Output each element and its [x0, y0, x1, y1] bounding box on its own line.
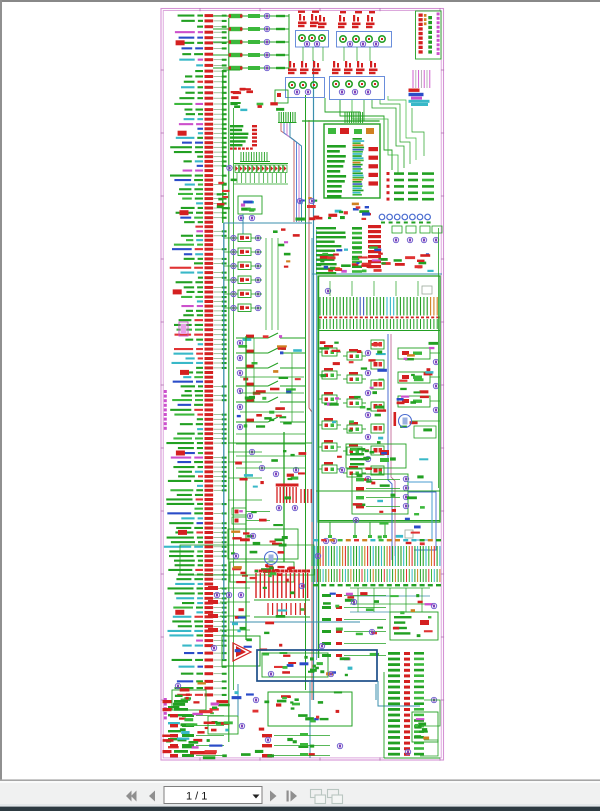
band F scatter mid — [279, 644, 282, 647]
comb base wires F — [254, 599, 310, 601]
red dash row B — [230, 148, 233, 150]
ECU box B feed wire — [302, 120, 379, 122]
bottom-left rows — [170, 714, 178, 717]
ECU main box teal top — [312, 273, 442, 275]
bottom-right wire loops — [424, 700, 440, 726]
left mid green box — [275, 90, 288, 103]
band D mid connect wires — [236, 433, 306, 435]
band G bottom-left dense rows — [166, 740, 171, 743]
ECU box B ladder column — [353, 138, 362, 140]
red comb cluster E — [276, 487, 278, 503]
connector CN4 box — [330, 77, 385, 100]
toolbar separator — [0, 779, 600, 781]
component grid mid — [322, 348, 337, 356]
comb rows B1 — [240, 152, 242, 161]
bus wire teal vertical — [223, 223, 225, 660]
connector stack CN4 glyphs — [333, 61, 335, 68]
left box top teal edge — [224, 222, 312, 224]
button first page — [131, 791, 137, 802]
switch zone drops — [253, 338, 255, 402]
switch rows extra wires — [240, 376, 304, 378]
ECU box B border — [324, 124, 380, 198]
icon next view — [328, 790, 339, 798]
main bus elbow — [222, 70, 224, 223]
button next page — [270, 791, 277, 802]
long green vertical x246 — [245, 336, 247, 640]
frame zone ticks left right — [161, 69, 164, 71]
bottom-left cluster G2 — [208, 716, 238, 734]
risers to navy box — [237, 684, 239, 716]
frame zone ticks top bottom — [199, 8, 201, 11]
cluster B left margin bits — [218, 198, 222, 201]
center bundle rose wire — [309, 120, 312, 700]
harness name vertical magenta — [164, 390, 167, 393]
band E mid scatter — [271, 459, 278, 462]
relay zone side labels — [284, 253, 291, 256]
mid grid scatter — [370, 451, 375, 454]
component column tall — [371, 340, 384, 349]
controller navy box — [257, 650, 377, 681]
legend label red — [409, 89, 420, 92]
title text orange vertical — [424, 14, 427, 17]
legend label cyan row2 — [411, 103, 428, 106]
pin table labels F bottom — [313, 584, 318, 586]
long bus green vertical E — [283, 432, 285, 562]
funnel wire bundle — [281, 123, 294, 165]
center bundle blue wire — [316, 230, 318, 660]
red comb cluster E2 — [300, 489, 302, 503]
wire box F — [180, 545, 314, 575]
warning bar red M1 — [394, 412, 397, 426]
button previous page — [149, 791, 155, 802]
band F right rows — [322, 594, 331, 597]
component cluster E1 — [346, 444, 406, 468]
title text green vertical — [428, 16, 432, 19]
bottom-right base wires — [384, 757, 440, 759]
E right scatter — [380, 484, 390, 487]
band F right box — [390, 612, 438, 640]
legend label blue — [409, 93, 424, 96]
window left border — [0, 0, 2, 780]
ECU box B comb top — [344, 112, 346, 123]
comb circles triple F — [214, 592, 219, 597]
bus connect horizontal E — [228, 442, 312, 444]
box bottom rail — [318, 520, 440, 522]
band G scatter — [316, 716, 319, 719]
red comb header text F — [278, 566, 285, 568]
ECU main box border — [318, 276, 440, 522]
circles E — [249, 449, 254, 454]
page number combo box — [164, 787, 262, 804]
relay ladder drops — [265, 238, 267, 330]
pin table strokes upper — [319, 297, 321, 316]
right component group rows — [398, 348, 430, 359]
center bundle teal wire — [313, 60, 315, 700]
relay ladder column — [238, 234, 251, 242]
ECU green marks col2 — [352, 227, 362, 230]
teal drops below navy box — [309, 681, 311, 758]
red comb cluster F2 — [267, 603, 269, 615]
mesh wires F right — [350, 587, 430, 589]
left mid marks — [240, 109, 247, 111]
bottom-right box — [412, 712, 438, 742]
band F scatter right — [391, 595, 399, 597]
bottom-center box G3 — [268, 692, 352, 726]
ECU mid scatter — [328, 269, 333, 272]
terminal zipper strip — [234, 163, 288, 165]
cluster B lower-mid — [316, 217, 323, 220]
long wire row 491 — [316, 490, 440, 492]
band E link wires — [228, 451, 262, 453]
component cluster E4 box — [230, 562, 294, 582]
blue donut row B — [379, 214, 385, 220]
connector comb B0 — [278, 112, 280, 122]
pin table drop wires — [329, 281, 331, 296]
navy box inner box — [262, 653, 328, 677]
connector stack CN1 labels — [298, 11, 305, 13]
fuse row wires top — [213, 15, 289, 17]
connector stack CN3 glyphs — [289, 61, 291, 68]
below box cluster B — [328, 214, 337, 217]
right group scatter — [420, 390, 429, 393]
ECU right components row — [392, 226, 402, 233]
svg-text:1 / 1: 1 / 1 — [186, 791, 207, 803]
component cluster E3 box — [228, 529, 298, 559]
switch rows left-center — [236, 337, 268, 339]
cluster B lower-left box — [238, 196, 262, 214]
multicolour pin table F upper — [311, 546, 313, 566]
connector stack CN1 glyphs — [299, 14, 301, 21]
ECU main box teal left — [311, 238, 313, 522]
rail drops with pads — [329, 522, 331, 535]
connector CN3 box — [286, 78, 325, 98]
zipper drops — [236, 173, 238, 183]
title note magenta vertical — [437, 13, 440, 16]
component cluster E2 — [352, 474, 408, 514]
right edge vertical wire — [438, 228, 440, 488]
fuse feed bus vertical — [288, 14, 290, 70]
pin table bottom rail — [318, 330, 440, 332]
ECU box B top cells — [328, 128, 336, 134]
tier link wires — [302, 47, 304, 61]
bottom-left extra red rows — [163, 700, 172, 703]
pin table red dashes — [319, 317, 322, 319]
multicolour pin table F lower — [311, 569, 313, 582]
legend rows right of ECU B — [387, 172, 390, 175]
frame inner border — [163, 11, 441, 758]
multicolour pin table F labels — [313, 539, 318, 541]
left mid red text cluster — [240, 88, 246, 91]
bottom-left long red bar — [190, 751, 216, 754]
button last page — [287, 791, 289, 802]
chip box small — [405, 530, 413, 538]
frame outer border — [161, 9, 444, 761]
comb circles E — [276, 505, 281, 510]
circles F — [233, 553, 238, 558]
legend wire colour strokes — [412, 70, 414, 88]
bottom-center rows — [262, 734, 272, 737]
connector CN4 pins — [333, 81, 339, 87]
long green bus vertical right — [318, 276, 320, 658]
title text red vertical — [419, 14, 423, 17]
bottom-right terminal rows — [388, 652, 400, 655]
navy box contents — [287, 664, 294, 667]
wires to right edge E — [408, 482, 432, 540]
bottom-left cluster G1 — [172, 690, 206, 710]
statusbar light strip — [0, 804, 600, 807]
motor symbol M2 — [265, 552, 278, 565]
connector CN1 pins — [299, 35, 305, 41]
pink accent box mid-left — [179, 322, 188, 336]
motor symbol M1 — [399, 415, 412, 428]
op-amp box — [222, 636, 260, 666]
harness name vertical magenta 2 — [164, 698, 167, 701]
component rows F left — [208, 586, 218, 590]
left cluster rows B — [230, 125, 243, 127]
staircase wires right — [325, 98, 360, 122]
bus wire green vertical A — [228, 18, 230, 742]
switch rows scatter — [281, 347, 286, 350]
connector CN2 pins — [340, 36, 346, 42]
teal wire drop B — [242, 214, 244, 234]
funnel bundle merge down — [293, 165, 295, 222]
window top border — [0, 0, 600, 2]
ECU box B text rows — [327, 145, 346, 148]
bus wire green vertical B — [233, 108, 235, 690]
blue wire loop right — [388, 334, 392, 560]
left harness terminal label column — [164, 14, 227, 696]
pin table strokes lower — [319, 319, 321, 329]
legend label cyan row1 — [409, 100, 430, 103]
ECU box B red column — [369, 147, 379, 151]
connector CN1 box — [296, 31, 329, 48]
teal cross wire F — [230, 621, 360, 623]
pin table small box — [422, 286, 432, 294]
red comb cluster F1 — [255, 573, 257, 598]
toolbar background — [0, 781, 600, 804]
icon previous view — [311, 790, 322, 798]
component rows E mid — [232, 508, 246, 515]
connector stack CN2 glyphs — [339, 15, 341, 22]
op-amp triangle — [233, 643, 251, 661]
title block border — [416, 11, 442, 59]
statusbar dark strip — [0, 807, 600, 811]
ECU text block left — [316, 227, 336, 229]
left column lower sparse labels — [168, 706, 179, 708]
connector CN2 box — [337, 32, 392, 48]
connector CN3 pins — [289, 82, 295, 88]
pin table circ — [325, 288, 330, 293]
legend label magenta — [411, 97, 422, 100]
ECU red text column — [368, 225, 381, 228]
M1 link wires — [412, 420, 440, 422]
center bundle green wire — [305, 95, 307, 690]
